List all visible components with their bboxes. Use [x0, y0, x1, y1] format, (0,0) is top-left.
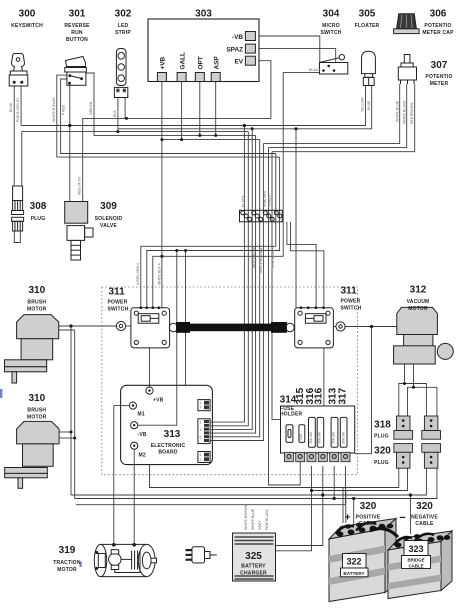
svg-text:METER CAP: METER CAP [422, 30, 454, 36]
svg-text:311: 311 [109, 287, 126, 298]
svg-text:SOLENOID: SOLENOID [95, 216, 123, 222]
svg-text:5: 5 [200, 436, 202, 440]
svg-text:POS B CHG EV: POS B CHG EV [16, 97, 20, 122]
svg-text:GRN EN: GRN EN [89, 101, 93, 115]
svg-text:+: + [345, 513, 351, 524]
svg-text:1: 1 [200, 453, 202, 457]
svg-text:P RED: P RED [62, 104, 66, 115]
svg-text:BRIDGE: BRIDGE [407, 558, 424, 563]
svg-text:310: 310 [28, 393, 45, 404]
svg-text:10A: 10A [299, 433, 303, 440]
svg-text:WHITE BROWN: WHITE BROWN [259, 247, 263, 273]
svg-text:304: 304 [323, 9, 340, 20]
svg-text:REVERSE: REVERSE [64, 23, 90, 29]
svg-text:CABLE: CABLE [415, 521, 434, 527]
svg-text:MOTOR: MOTOR [27, 307, 47, 313]
svg-text:317: 317 [338, 387, 349, 404]
svg-text:METER: METER [430, 81, 449, 87]
svg-text:301: 301 [69, 9, 86, 20]
svg-text:KEYSWITCH: KEYSWITCH [11, 23, 43, 29]
svg-text:MOTOR: MOTOR [27, 415, 47, 421]
svg-text:325: 325 [245, 551, 262, 562]
svg-text:OPT: OPT [198, 56, 205, 69]
svg-text:ASP: ASP [213, 56, 220, 70]
svg-text:311: 311 [341, 286, 358, 297]
svg-text:POWER: POWER [341, 299, 361, 305]
svg-text:WHITE BLUE: WHITE BLUE [252, 246, 256, 268]
svg-text:GREEN: GREEN [268, 194, 272, 207]
svg-text:EV: EV [234, 59, 243, 66]
svg-text:+VB: +VB [160, 57, 167, 70]
svg-text:VACUUM: VACUUM [407, 299, 430, 305]
svg-text:+VB: +VB [153, 398, 164, 404]
svg-text:POTENTIO: POTENTIO [425, 74, 452, 80]
svg-text:YELLOW: YELLOW [361, 97, 365, 112]
svg-text:309: 309 [100, 201, 117, 212]
svg-text:PLUG: PLUG [374, 460, 389, 466]
svg-text:BRUSH: BRUSH [27, 300, 46, 306]
svg-text:NEGATIVE: NEGATIVE [411, 515, 438, 521]
svg-text:303: 303 [195, 9, 212, 20]
svg-text:WHITE BLK 4: WHITE BLK 4 [158, 263, 162, 285]
svg-text:2: 2 [200, 406, 202, 410]
svg-text:320: 320 [374, 446, 391, 457]
svg-text:BLUE: BLUE [367, 100, 371, 110]
svg-text:WHITE BLACK: WHITE BLACK [403, 100, 407, 124]
svg-text:SPAZ: SPAZ [226, 46, 243, 53]
svg-text:1: 1 [200, 401, 202, 405]
svg-text:-VB: -VB [138, 432, 147, 438]
svg-text:CABLE: CABLE [359, 521, 378, 527]
svg-text:3: 3 [200, 428, 202, 432]
svg-text:PINK WHT: PINK WHT [263, 189, 267, 207]
svg-text:307: 307 [431, 60, 448, 71]
svg-text:318: 318 [374, 420, 391, 431]
svg-text:RUN: RUN [71, 30, 83, 36]
svg-text:WHITE BLUE: WHITE BLUE [396, 100, 400, 122]
svg-text:BATTERY: BATTERY [343, 571, 364, 576]
svg-text:316: 316 [314, 387, 325, 404]
svg-text:BLACK: BLACK [309, 68, 321, 72]
svg-text:312: 312 [410, 285, 427, 296]
svg-text:30A aM: 30A aM [309, 432, 313, 444]
svg-text:RED BROWN: RED BROWN [410, 102, 414, 124]
svg-text:BATTERY: BATTERY [241, 564, 266, 570]
svg-text:MICRO: MICRO [322, 23, 340, 29]
svg-text:LED: LED [118, 23, 129, 29]
svg-text:M2: M2 [139, 453, 146, 459]
svg-text:30A aM: 30A aM [332, 432, 336, 444]
svg-text:313: 313 [164, 429, 181, 440]
svg-text:CHARGER: CHARGER [240, 571, 267, 577]
svg-text:300: 300 [19, 9, 36, 20]
svg-text:POWER: POWER [108, 300, 128, 306]
svg-text:NEG OF EV: NEG OF EV [78, 176, 82, 195]
svg-text:SWITCH: SWITCH [321, 30, 342, 36]
svg-text:CABLE: CABLE [408, 564, 423, 569]
svg-text:310: 310 [28, 285, 45, 296]
svg-text:SWITCH: SWITCH [108, 307, 129, 313]
svg-text:320: 320 [416, 501, 433, 512]
svg-text:BLK: BLK [113, 109, 117, 117]
svg-text:PINK BLACK: PINK BLACK [265, 509, 269, 530]
svg-text:30A aM: 30A aM [342, 432, 346, 444]
svg-text:308: 308 [30, 201, 47, 212]
svg-text:WHITE B BLUE: WHITE B BLUE [52, 97, 56, 122]
svg-text:HOLDER: HOLDER [280, 412, 303, 418]
svg-text:BLACK: BLACK [242, 195, 246, 207]
svg-text:SWITCH: SWITCH [341, 306, 362, 312]
svg-text:−: − [399, 512, 405, 524]
svg-text:323: 323 [408, 544, 423, 554]
svg-text:WHITE BLUE: WHITE BLUE [251, 508, 255, 530]
svg-text:A RED GRN 4: A RED GRN 4 [136, 263, 140, 285]
svg-text:BRUSH: BRUSH [27, 408, 46, 414]
svg-text:2: 2 [200, 458, 202, 462]
svg-text:MOTOR: MOTOR [57, 567, 77, 573]
svg-text:322: 322 [346, 557, 361, 567]
svg-text:319: 319 [59, 545, 76, 556]
svg-text:TRACTION: TRACTION [53, 560, 81, 566]
svg-text:ELECTRONIC: ELECTRONIC [151, 443, 186, 449]
svg-text:302: 302 [115, 9, 132, 20]
svg-text:POSITIVE: POSITIVE [356, 515, 381, 521]
svg-text:PLUG: PLUG [374, 434, 389, 440]
svg-text:STRIP: STRIP [115, 30, 131, 36]
svg-text:POTENTIO: POTENTIO [424, 23, 451, 29]
svg-text:BUTTON: BUTTON [66, 37, 88, 43]
svg-text:MOTOR: MOTOR [408, 306, 428, 312]
svg-text:PLUG: PLUG [31, 216, 46, 222]
svg-text:306: 306 [430, 9, 447, 20]
svg-text:BOARD: BOARD [158, 450, 178, 456]
svg-text:1: 1 [200, 420, 202, 424]
svg-text:320: 320 [360, 501, 377, 512]
svg-text:M1: M1 [138, 412, 145, 418]
svg-text:PINK BLACK: PINK BLACK [271, 247, 275, 268]
svg-text:WHITE BROWN: WHITE BROWN [244, 504, 248, 530]
svg-text:GREY: GREY [258, 520, 262, 530]
svg-text:GALL: GALL [179, 52, 186, 69]
svg-text:FLOATER: FLOATER [355, 23, 380, 29]
svg-text:30A aM: 30A aM [317, 432, 321, 444]
svg-text:BLUE: BLUE [9, 102, 13, 112]
svg-text:VALVE: VALVE [100, 223, 117, 229]
svg-text:-VB: -VB [232, 34, 243, 41]
svg-text:305: 305 [359, 9, 376, 20]
